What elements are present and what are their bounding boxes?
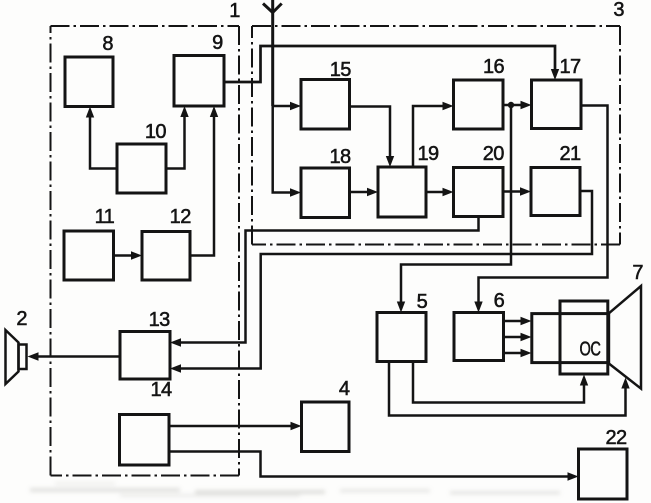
block 15 bbox=[301, 80, 350, 130]
wire block 15 to block 19 (top) bbox=[350, 107, 391, 161]
svg-text:3: 3 bbox=[613, 0, 624, 21]
wire block 14 to block 4 bbox=[169, 425, 294, 428]
svg-text:14: 14 bbox=[150, 379, 172, 401]
wire block 12 to block 9 bbox=[190, 113, 214, 256]
block 17 bbox=[532, 80, 582, 129]
block 20 bbox=[454, 168, 504, 217]
loudspeaker 2 bbox=[6, 330, 27, 384]
wire block 14 to block 22 bbox=[169, 452, 571, 477]
arrowhead into block 4 bbox=[291, 422, 302, 430]
svg-text:17: 17 bbox=[559, 56, 581, 78]
arrowhead into block 20 left bbox=[443, 188, 454, 196]
svg-text:6: 6 bbox=[494, 290, 505, 312]
arrowhead into block 13 right (from 21) bbox=[170, 364, 181, 372]
wire block 19 to block 20 bbox=[426, 191, 447, 194]
svg-text:OC: OC bbox=[580, 339, 601, 361]
svg-text:9: 9 bbox=[212, 32, 223, 54]
kinescope 7: screen horn bbox=[609, 286, 641, 389]
svg-text:5: 5 bbox=[417, 291, 428, 313]
arrowhead into block 17 left bbox=[521, 101, 532, 109]
block 3 boundary (dash-dot frame) bbox=[252, 26, 620, 245]
block 16 bbox=[454, 80, 504, 129]
svg-text:13: 13 bbox=[149, 309, 171, 331]
svg-text:10: 10 bbox=[145, 121, 167, 143]
svg-text:20: 20 bbox=[483, 143, 505, 165]
arrowhead into block 18 bbox=[290, 188, 301, 196]
arrowhead into block 19 top bbox=[386, 156, 394, 167]
block 12 bbox=[142, 232, 190, 281]
kinescope 7: deflection yoke OC bbox=[560, 301, 608, 374]
wire block 10 to block 8 bbox=[90, 113, 117, 169]
svg-text:8: 8 bbox=[102, 33, 113, 55]
svg-text:21: 21 bbox=[559, 143, 581, 165]
block 10 bbox=[117, 144, 166, 193]
svg-text:19: 19 bbox=[417, 143, 439, 165]
arrowhead into horn bottom bbox=[621, 378, 629, 389]
block 4 bbox=[302, 402, 350, 452]
svg-text:11: 11 bbox=[95, 206, 115, 228]
wire block 10 to block 9 bbox=[166, 113, 185, 169]
wire junction to block 5 bbox=[401, 105, 511, 306]
wire block 18 to block 19 bbox=[350, 191, 372, 194]
arrowhead into block 8 bottom bbox=[86, 107, 94, 118]
wire block 20 to block 13 bbox=[177, 217, 479, 343]
arrowhead into block 19 left bbox=[367, 188, 378, 196]
svg-text:4: 4 bbox=[339, 378, 350, 400]
wire block 9 to block 17 (top feed) bbox=[224, 46, 555, 82]
svg-text:1: 1 bbox=[229, 0, 240, 22]
arrowhead into block 16 left bbox=[443, 102, 454, 110]
junction node on 16-17 wire bbox=[508, 102, 514, 108]
block 9 bbox=[174, 56, 224, 107]
svg-text:22: 22 bbox=[605, 427, 627, 449]
block 18 bbox=[301, 168, 350, 218]
wire antenna to block 15 bbox=[273, 105, 294, 108]
wire block 13 to loudspeaker 2 bbox=[34, 355, 120, 358]
arrowhead into block 9 bottom (from 10) bbox=[180, 106, 188, 117]
block 19 bbox=[378, 167, 426, 217]
wire block 20 to block 21 bbox=[503, 190, 524, 193]
arrowhead into block 5 top bbox=[397, 302, 405, 313]
wire block 5 to horn bottom bbox=[389, 362, 626, 416]
svg-text:15: 15 bbox=[330, 59, 352, 81]
svg-text:16: 16 bbox=[483, 56, 505, 78]
block 8 bbox=[65, 57, 113, 107]
arrowhead into block 13 right (from 20) bbox=[170, 338, 181, 346]
block 11 bbox=[64, 231, 114, 280]
block 22 bbox=[579, 449, 628, 499]
wire block 17 to block 6 bbox=[479, 106, 608, 306]
wire block 6 to gun (three leads) bbox=[504, 321, 526, 353]
arrowhead into block 15 bbox=[290, 102, 301, 110]
arrowhead into block 6 top bbox=[474, 302, 482, 313]
wire block 5 to yoke OC bottom bbox=[413, 362, 584, 403]
block 21 bbox=[531, 168, 580, 216]
wire block 11 to block 12 bbox=[114, 254, 136, 257]
antenna bbox=[263, 0, 282, 106]
block 5 bbox=[377, 313, 426, 362]
scan smudge band (decorative) bbox=[30, 482, 560, 497]
svg-text:7: 7 bbox=[632, 262, 643, 284]
arrowhead into block 12 bbox=[131, 251, 142, 259]
wire block 16 to block 17 bbox=[503, 104, 525, 107]
wire block 19 to block 16 bbox=[413, 106, 446, 167]
block 14 bbox=[120, 415, 170, 466]
svg-text:2: 2 bbox=[16, 308, 27, 330]
svg-text:12: 12 bbox=[170, 206, 192, 228]
block 1 boundary (dash-dot frame) bbox=[51, 26, 240, 476]
arrowhead into yoke bottom bbox=[580, 375, 588, 386]
wire antenna down to block 18 bbox=[273, 106, 294, 193]
block 13 bbox=[120, 332, 170, 380]
arrowheads into gun (three) bbox=[521, 317, 532, 325]
arrowhead into block 21 left bbox=[520, 187, 531, 195]
wire block 21 to block 13 bbox=[177, 191, 592, 369]
arrowhead into block 9 bottom (from 12) bbox=[210, 106, 218, 117]
arrowhead into block 17 top bbox=[551, 69, 559, 80]
arrowhead into loudspeaker bbox=[28, 352, 39, 360]
svg-text:18: 18 bbox=[329, 146, 351, 168]
kinescope 7: tube neck bbox=[532, 314, 609, 363]
block 6 bbox=[454, 313, 504, 361]
arrowhead into block 22 bbox=[568, 472, 579, 480]
